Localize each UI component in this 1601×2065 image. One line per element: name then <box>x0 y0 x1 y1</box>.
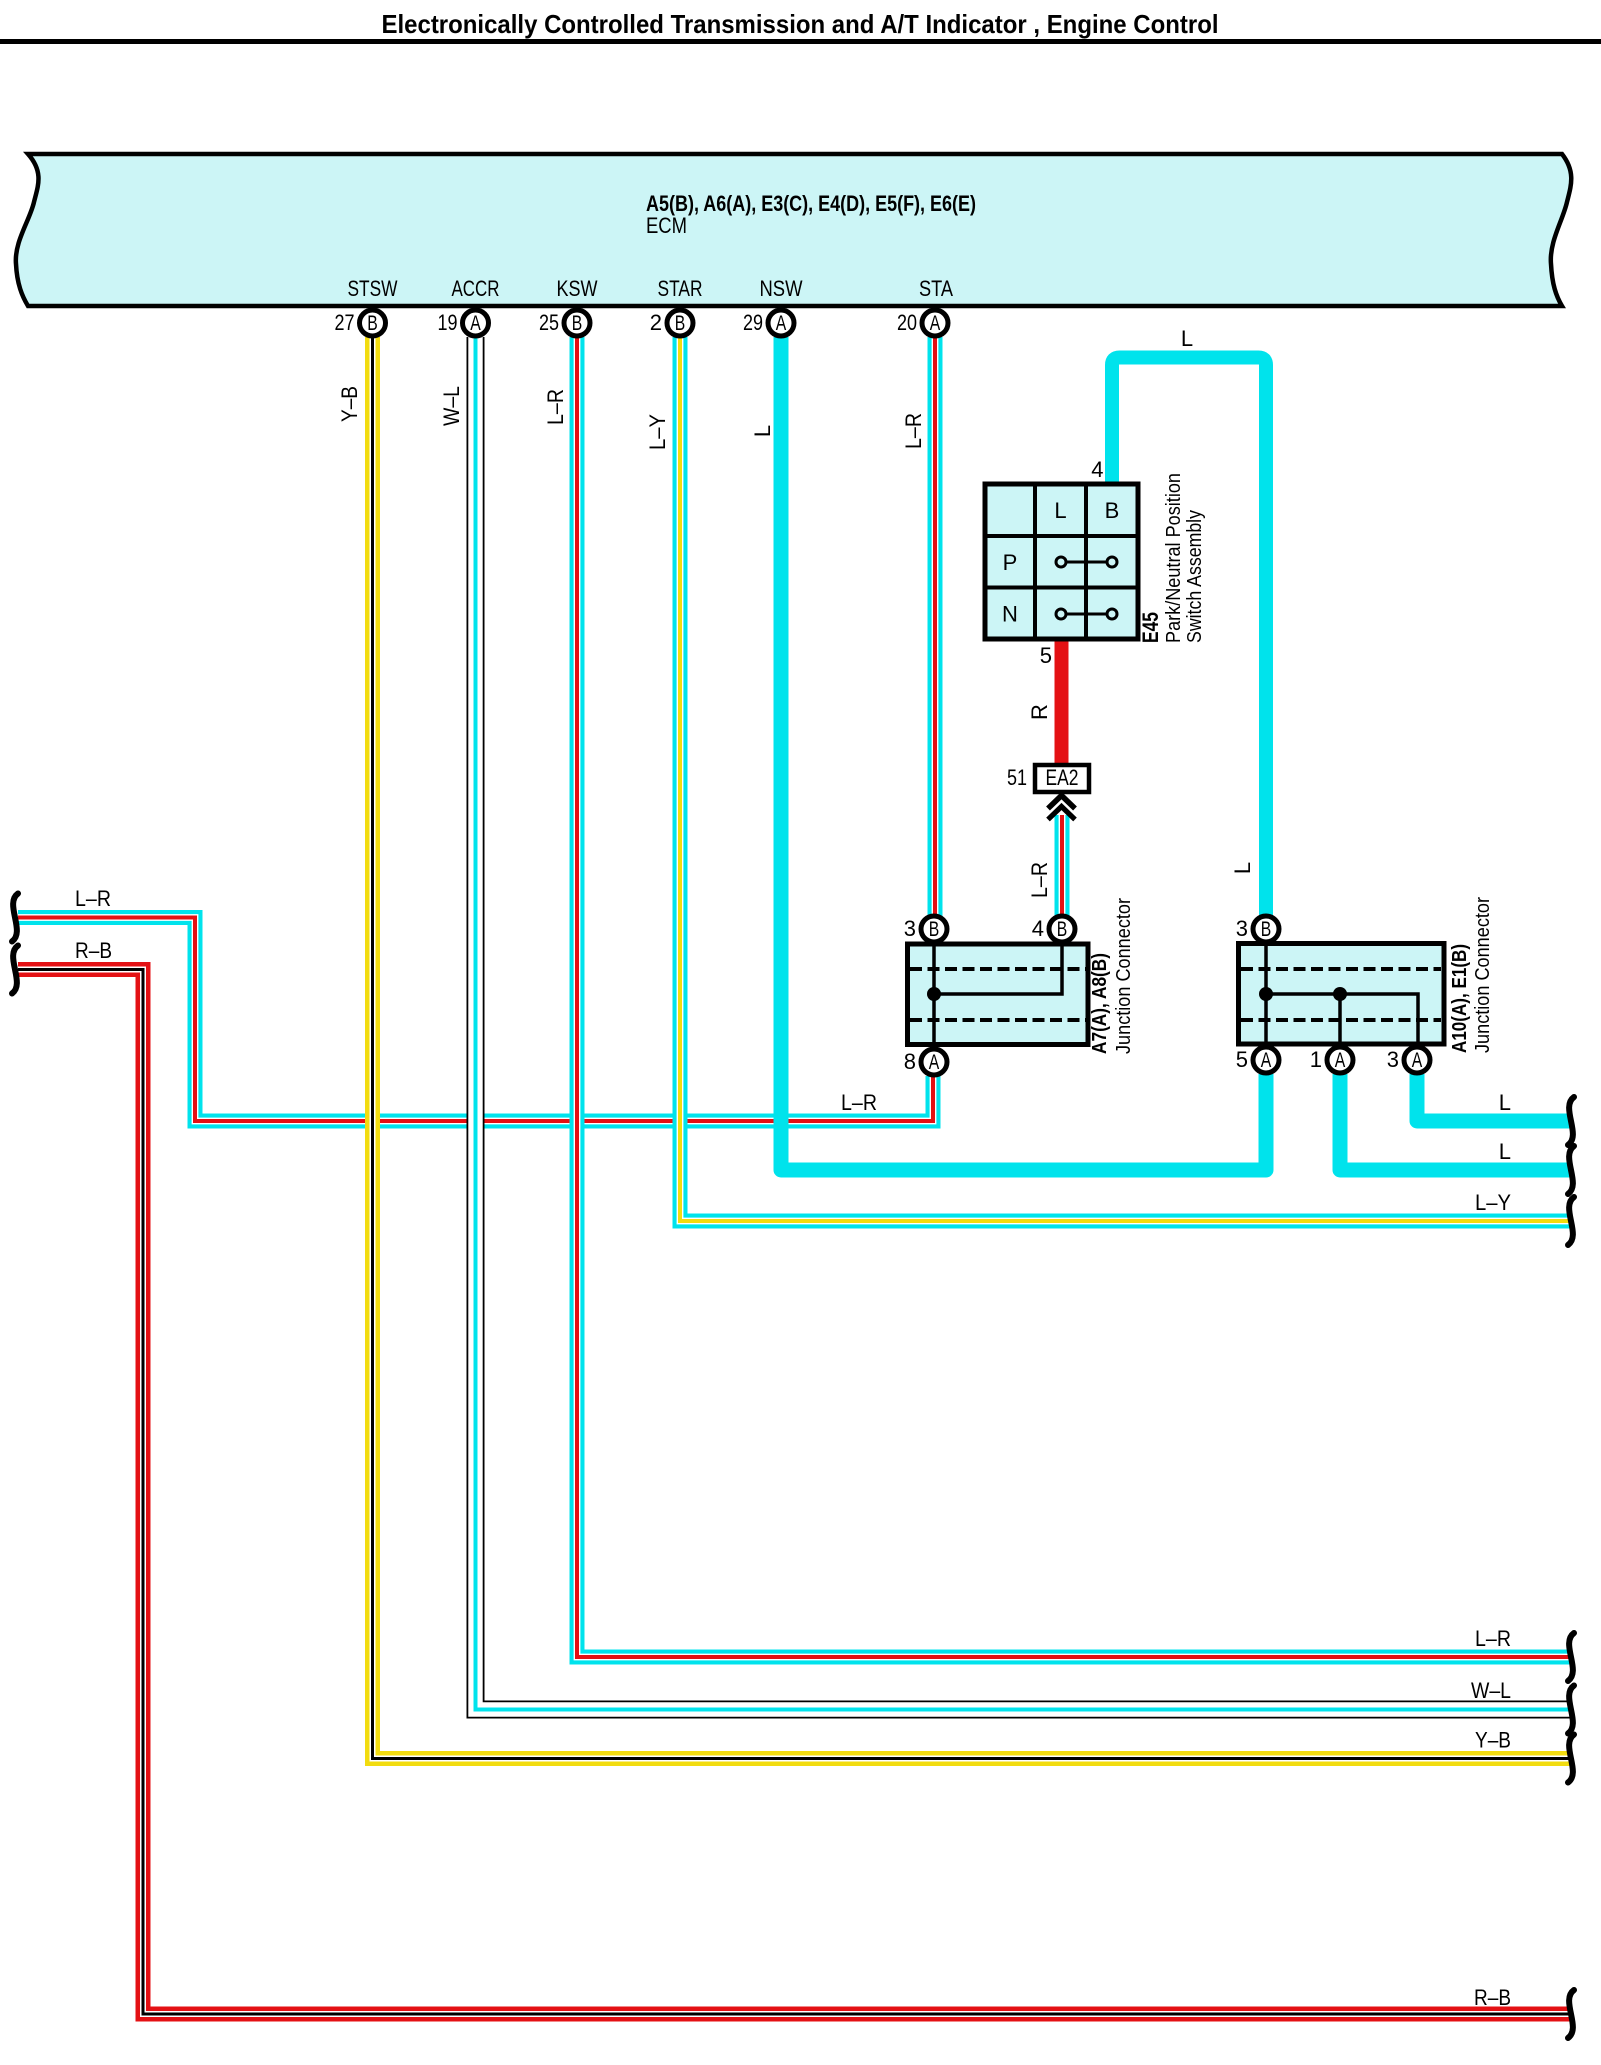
svg-text:29: 29 <box>743 310 763 335</box>
svg-text:A: A <box>1412 1049 1423 1072</box>
svg-text:STSW: STSW <box>348 276 398 301</box>
svg-text:25: 25 <box>539 310 559 335</box>
svg-text:5: 5 <box>1040 643 1052 668</box>
svg-text:NSW: NSW <box>760 276 803 301</box>
svg-text:A7(A), A8(B): A7(A), A8(B) <box>1089 953 1111 1054</box>
svg-text:L: L <box>1230 862 1255 874</box>
svg-text:W–L: W–L <box>439 386 464 426</box>
svg-text:3: 3 <box>904 916 916 941</box>
svg-text:Y–B: Y–B <box>1475 1728 1511 1753</box>
svg-text:B: B <box>367 312 378 335</box>
svg-text:L–R: L–R <box>75 886 111 911</box>
svg-text:A: A <box>776 312 787 335</box>
svg-text:1: 1 <box>1310 1047 1322 1072</box>
svg-text:5: 5 <box>1236 1047 1248 1072</box>
svg-text:4: 4 <box>1091 457 1103 482</box>
svg-text:2: 2 <box>650 310 662 335</box>
svg-text:ACCR: ACCR <box>452 276 500 301</box>
svg-text:N: N <box>1002 602 1018 627</box>
svg-text:B: B <box>1105 498 1120 523</box>
svg-text:B: B <box>929 918 940 941</box>
svg-text:A10(A), E1(B): A10(A), E1(B) <box>1449 944 1471 1053</box>
svg-text:20: 20 <box>897 310 917 335</box>
svg-text:3: 3 <box>1387 1047 1399 1072</box>
svg-text:STAR: STAR <box>658 276 703 301</box>
svg-text:L–R: L–R <box>1027 862 1052 898</box>
svg-text:ECM: ECM <box>646 213 687 238</box>
svg-text:L–R: L–R <box>841 1090 877 1115</box>
svg-text:8: 8 <box>904 1049 916 1074</box>
svg-text:Y–B: Y–B <box>337 386 362 422</box>
svg-text:L: L <box>1499 1139 1511 1164</box>
svg-text:L–R: L–R <box>901 413 926 449</box>
svg-text:KSW: KSW <box>557 276 598 301</box>
svg-text:P: P <box>1003 550 1018 575</box>
svg-text:Switch Assembly: Switch Assembly <box>1184 510 1206 643</box>
svg-text:Electronically Controlled Tran: Electronically Controlled Transmission a… <box>382 9 1219 39</box>
svg-text:Park/Neutral Position: Park/Neutral Position <box>1163 473 1185 643</box>
svg-text:A: A <box>1261 1049 1272 1072</box>
svg-text:L: L <box>750 425 775 437</box>
svg-text:W–L: W–L <box>1471 1678 1511 1703</box>
svg-text:R–B: R–B <box>75 938 112 963</box>
svg-text:EA2: EA2 <box>1046 765 1079 790</box>
svg-text:L–Y: L–Y <box>645 414 670 450</box>
svg-text:L: L <box>1499 1090 1511 1115</box>
svg-text:L: L <box>1181 326 1193 351</box>
svg-text:A: A <box>470 312 481 335</box>
svg-text:A: A <box>929 1051 940 1074</box>
svg-text:A: A <box>1335 1049 1346 1072</box>
svg-text:R–B: R–B <box>1474 1985 1511 2010</box>
svg-text:E45: E45 <box>1138 612 1163 643</box>
svg-text:Junction Connector: Junction Connector <box>1113 898 1135 1054</box>
svg-text:B: B <box>1261 918 1272 941</box>
svg-text:A: A <box>930 312 941 335</box>
svg-text:L–Y: L–Y <box>1475 1190 1511 1215</box>
svg-text:A5(B), A6(A), E3(C), E4(D), E5: A5(B), A6(A), E3(C), E4(D), E5(F), E6(E) <box>646 191 976 216</box>
svg-text:4: 4 <box>1032 916 1044 941</box>
svg-text:51: 51 <box>1007 765 1027 790</box>
svg-text:27: 27 <box>335 310 355 335</box>
svg-text:B: B <box>572 312 583 335</box>
svg-text:B: B <box>1057 918 1068 941</box>
svg-text:19: 19 <box>438 310 458 335</box>
svg-text:L–R: L–R <box>543 389 568 425</box>
svg-text:Junction Connector: Junction Connector <box>1472 897 1494 1053</box>
svg-text:L: L <box>1054 498 1066 523</box>
svg-text:3: 3 <box>1236 916 1248 941</box>
svg-text:B: B <box>675 312 686 335</box>
svg-text:L–R: L–R <box>1475 1626 1511 1651</box>
svg-text:STA: STA <box>919 276 953 301</box>
svg-text:R: R <box>1027 704 1052 720</box>
